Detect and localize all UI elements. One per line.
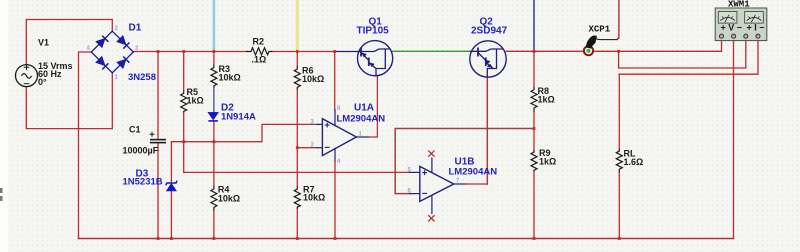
wire Q2 emitter to U1B output [486,77,488,184]
svg-text:XCP1: XCP1 [589,25,611,35]
op-amp U1B [420,158,454,215]
diode D2 [208,112,218,121]
yellow scope wire [296,0,299,52]
svg-text:+ V −: + V − [721,23,743,33]
svg-text:+ I −: + I − [747,23,765,33]
transistor Q1 [358,41,393,76]
green emitter wire Q1 to Q2 [393,50,470,52]
main positive rail wire left part [133,51,246,53]
U1B pin6 lead [410,193,420,195]
svg-text:10kΩ: 10kΩ [303,193,325,203]
bridge rectifier D1 [91,31,133,73]
junction D2 cathode / R4 top on reference node [213,140,216,143]
transistor Q2 [470,41,506,77]
AC source V1 [16,65,38,87]
svg-text:2SD947: 2SD947 [471,26,508,37]
resistor R4 [211,186,217,211]
R9 column wire [533,129,535,239]
wire bridge left vertex to ground rail [79,52,92,239]
wire V1 top to bridge top vertex [26,20,112,65]
R3 top lead wire [213,52,215,65]
XCP1 output wire to top edge [618,0,620,38]
U1A pin2 lead [317,147,322,149]
wire U1B output [466,183,487,185]
bridge diode upper-right [117,36,126,45]
U1B pin5 lead [410,171,420,173]
svg-text:TIP105: TIP105 [357,26,390,37]
D2 to node lead wire [213,121,215,141]
junction R3 top / cyan probe on positive rail [213,50,216,53]
junction R9 bottom on ground rail [533,237,536,240]
U1A pin8 lead [334,110,336,126]
cyan scope wire [213,0,216,52]
svg-text:1N914A: 1N914A [221,112,256,123]
navy scope wire [533,0,535,52]
svg-text:10kΩ: 10kΩ [218,194,240,204]
svg-text:1.6Ω: 1.6Ω [624,157,644,167]
svg-text:C1: C1 [129,125,141,135]
bridge diode upper-left [96,39,105,48]
R6 column wire [296,52,298,148]
svg-text:LM2904AN: LM2904AN [337,114,386,125]
wattmeter I- wire to RL [619,40,758,74]
R3-D2 link lead [213,88,215,113]
U1B output lead [454,183,466,185]
capacitor C1 [150,132,167,143]
resistor R5 [181,91,187,113]
wattmeter terminals [719,34,760,38]
svg-text:D1: D1 [129,23,142,34]
unconnected pin X bottom [428,215,434,221]
svg-text:U1A: U1A [354,103,374,114]
ground rail wire [79,238,734,240]
RL column wire [618,74,620,238]
svg-text:1N5231B: 1N5231B [123,177,163,188]
unconnected pin X top [428,151,434,157]
resistor R2 [246,48,272,55]
D3 column wire [170,142,172,239]
junction R4 bottom on ground rail [213,237,216,240]
wire V1 bottom jog to bridge bottom vertex [26,73,112,129]
junction R7 bottom on ground rail [296,237,299,240]
svg-text:10000µF: 10000µF [123,146,159,156]
svg-text:1kΩ: 1kΩ [538,95,555,105]
U1A output lead [356,136,369,138]
resistor R3 [211,65,217,88]
junction R5 top on positive rail [182,50,185,53]
junction U1A pin8 / Q1 base on positive rail [333,50,336,53]
junction R6 top / yellow probe on positive rail [296,50,299,53]
junction R8 top / navy probe on output wire [533,50,536,53]
wattmeter I+ wire [619,40,746,68]
svg-text:R2: R2 [253,37,265,47]
wattmeter V- ground wire [733,40,735,238]
junction R8/R9 feedback node [533,127,536,130]
svg-text:V1: V1 [38,38,49,48]
U1A pin3 lead [317,123,322,125]
left gauge needle [720,15,735,23]
U1B top power pin lead [431,158,433,173]
main rail wire R2 to U1A pin8 junction [272,51,334,53]
svg-text:LM2904AN: LM2904AN [449,167,498,178]
svg-text:1kΩ: 1kΩ [187,96,204,106]
resistor R7 [294,187,300,209]
right gauge needle [747,15,762,23]
U1A pin2 inverting input wire [297,147,317,149]
junction C1 top on positive rail [157,50,160,53]
U1A pin4 lead [334,149,336,163]
svg-text:1kΩ: 1kΩ [539,157,556,167]
svg-text:10kΩ: 10kΩ [219,73,241,83]
U1B noninverting input wire from reference node [184,171,410,173]
junction R5 bottom on reference node [182,140,185,143]
svg-text:10kΩ: 10kΩ [302,74,324,84]
C1 column wire [157,52,159,239]
R8 column wire [533,52,535,129]
load resistor RL [616,149,622,172]
junction C1 bottom on ground rail [157,237,160,240]
svg-text:3N258: 3N258 [128,72,156,83]
feedback wire R8/R9 node to U1B pin6 [395,129,534,194]
resistor R9 [531,150,537,172]
bridge diode lower-left [96,57,105,66]
U1B bottom power pin lead [431,195,433,214]
junction wattmeter tap on output wire [617,50,620,53]
wire U1A output to Q1 emitter [369,76,377,137]
junction R6/R7 divider at U1A inverting input [296,146,299,149]
svg-text:0°: 0° [38,77,47,87]
svg-text:XWM1: XWM1 [728,0,750,10]
reference node wire y141.7 [171,124,317,141]
wire Q2 to XCP1 and wattmeter V+ [506,40,721,51]
junction D3 anode on ground rail [170,237,173,240]
bridge diode lower-right [117,59,126,68]
U1A pin8 supply wire [334,52,336,111]
op-amp U1A [322,119,356,156]
U1A pin4 ground wire [334,162,336,239]
junction U1A pin4 on ground rail [334,237,337,240]
R5 column wire [183,52,185,173]
resistor R6 [294,66,300,90]
resistor R8 [531,87,537,112]
zener diode D3 [166,181,177,191]
R7 column wire [296,148,298,239]
svg-text:.1Ω: .1Ω [252,55,267,65]
Q1 base lead [335,51,358,53]
R4 column wire [213,142,215,239]
junction RL bottom on ground rail [618,237,621,240]
wattmeter XWM1 [715,8,767,41]
current probe XCP1 [584,36,619,55]
